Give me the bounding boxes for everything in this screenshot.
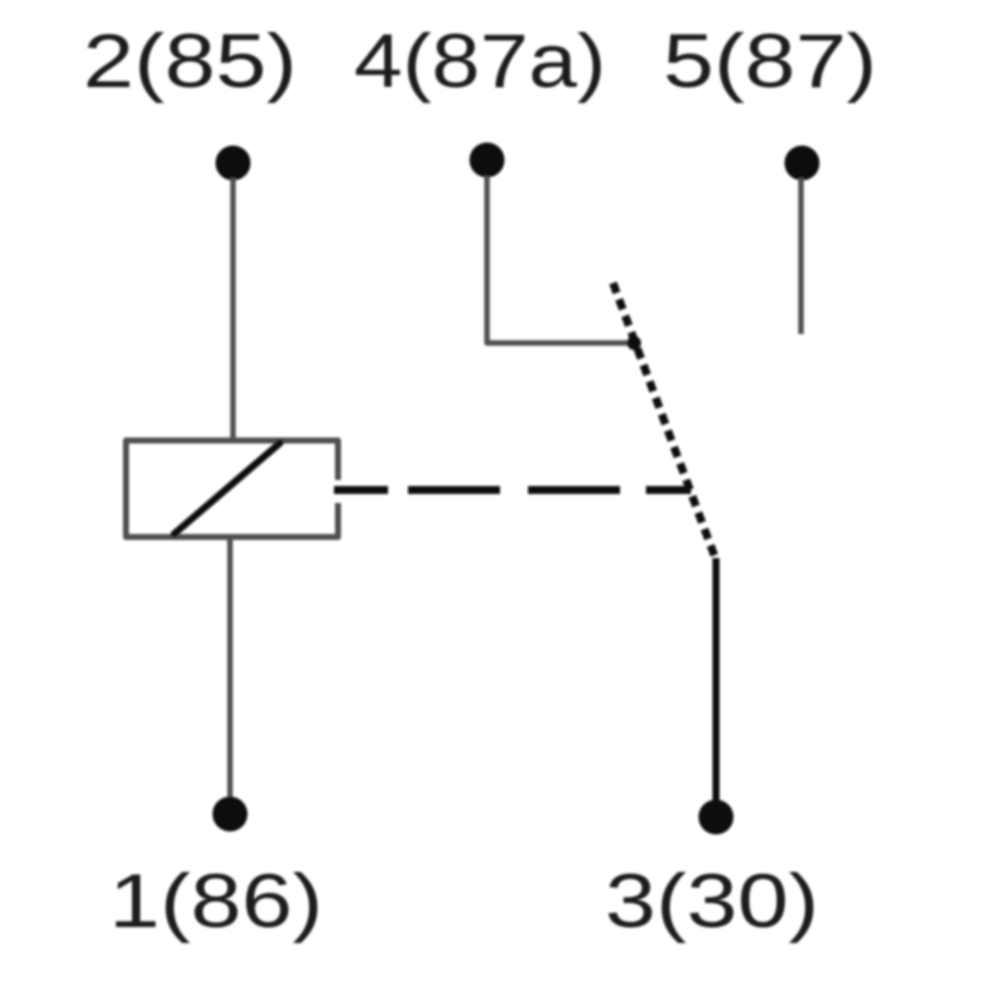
coil diagonal bbox=[174, 443, 280, 534]
svg-text:5(87): 5(87) bbox=[663, 19, 877, 104]
svg-text:2(85): 2(85) bbox=[83, 19, 297, 104]
terminal dot 3 (pin 30) bbox=[699, 800, 734, 835]
wire terminal 2 to coil bbox=[230, 178, 236, 440]
terminal dot 1 (pin 86) bbox=[213, 797, 248, 832]
wire stub terminal 5 bbox=[798, 178, 804, 334]
terminal dot 2 (pin 85) bbox=[216, 146, 251, 181]
wire switch arm to terminal 3 bbox=[713, 558, 720, 802]
svg-text:1(86): 1(86) bbox=[109, 859, 323, 944]
svg-text:3(30): 3(30) bbox=[605, 859, 819, 944]
relay coil K1 box bbox=[126, 441, 338, 538]
wire coil to terminal 1 bbox=[227, 537, 233, 801]
wire terminal 4 down then right to fixed contact bbox=[487, 176, 633, 343]
dashed mechanical link from coil to switch arm bbox=[334, 486, 388, 494]
junction blob arm on 87a contact bbox=[627, 336, 641, 350]
terminal dot 5 (pin 87) bbox=[785, 146, 820, 181]
svg-text:4(87a): 4(87a) bbox=[354, 19, 606, 104]
terminal dot 4 (pin 87a) bbox=[470, 143, 505, 178]
switch arm (movable contact, dotted) bbox=[613, 283, 716, 560]
